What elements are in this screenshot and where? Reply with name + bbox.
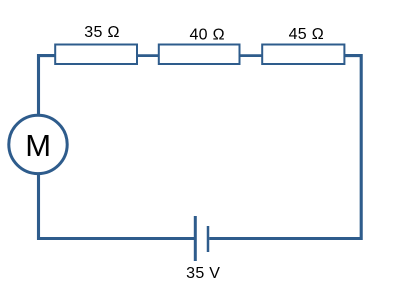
resistor R3: [262, 45, 344, 65]
svg-text:45 Ω: 45 Ω: [289, 26, 324, 43]
svg-text:35 Ω: 35 Ω: [84, 24, 119, 41]
wire from battery negative plate to motor bottom (bottom-left corner): [39, 175, 197, 239]
resistor R2: [159, 45, 240, 65]
motor U1 circle: [9, 115, 67, 173]
svg-text:M: M: [25, 128, 51, 163]
battery positive plate (short): [207, 226, 210, 252]
wire from motor top to resistor R1 (top-left corner): [39, 56, 57, 114]
svg-text:35 V: 35 V: [186, 265, 220, 282]
wire between R2 and R3: [240, 54, 264, 57]
battery negative plate (long): [194, 216, 197, 261]
svg-text:40 Ω: 40 Ω: [189, 27, 224, 44]
resistor R1: [55, 45, 137, 65]
wire from R3 down right side to battery positive plate: [209, 56, 361, 239]
wire between R1 and R2: [137, 54, 160, 57]
